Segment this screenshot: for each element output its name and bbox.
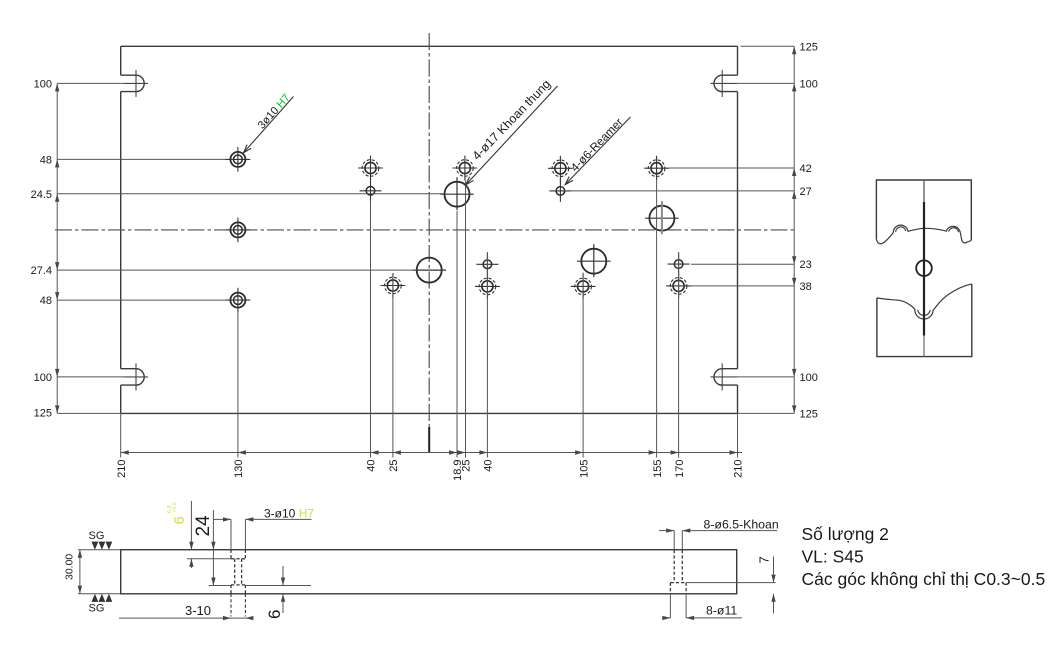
leader 3-o10 H7 (green) xyxy=(244,97,294,153)
hole o6.5/o11 at (678.6,285.9) xyxy=(673,280,684,291)
svg-text:30.00: 30.00 xyxy=(64,554,76,580)
hole o6.5/o11 at (656.6,168.2) xyxy=(651,163,662,174)
svg-text:SG: SG xyxy=(89,603,105,615)
svg-text:100: 100 xyxy=(34,372,52,384)
left dimension line xyxy=(56,83,58,413)
svg-text:100: 100 xyxy=(800,372,818,384)
hole o6.5/o11 at (583.1,286.4) xyxy=(578,281,589,292)
hole o6.5/o11 at (392.9,285.5) xyxy=(387,280,398,291)
dim 7 (right counterbore depth) xyxy=(686,582,776,584)
svg-text:7: 7 xyxy=(757,556,772,563)
extension line x=237.9 xyxy=(237,312,239,458)
section hole o10 (hidden lines), column x=238.2 xyxy=(230,550,232,559)
svg-text:8-ø11: 8-ø11 xyxy=(706,603,737,617)
svg-text:170: 170 xyxy=(674,460,686,478)
svg-text:Các góc không chỉ thị C0.3~0.5: Các góc không chỉ thị C0.3~0.5 xyxy=(802,569,1046,589)
svg-text:210: 210 xyxy=(116,460,128,478)
leader 4-o17 Khoan thung xyxy=(466,86,558,185)
dim 6 (bottom counterbore depth) xyxy=(282,566,284,586)
dim 3-o10 H7 (section) xyxy=(213,518,231,520)
extension at hole bottom (section) xyxy=(209,585,231,587)
svg-text:48: 48 xyxy=(40,154,52,166)
notch bottom-left xyxy=(121,369,145,385)
hole o6.5/o11 at (487.4,286.4) xyxy=(482,281,493,292)
dim 8-o11 xyxy=(662,617,670,619)
notch arcs in top break xyxy=(896,227,906,232)
main horizontal centerline xyxy=(55,229,794,231)
svg-text:40: 40 xyxy=(483,460,495,472)
svg-text:155: 155 xyxy=(652,460,664,478)
notch bottom-right xyxy=(714,369,738,385)
30.00 thickness dimension xyxy=(78,549,121,551)
dim 3-10 (bottom) xyxy=(119,617,250,619)
svg-text:38: 38 xyxy=(800,281,812,293)
svg-text:40: 40 xyxy=(366,460,378,472)
hole o10 at (237.9,300.1) xyxy=(230,293,245,308)
svg-text:105: 105 xyxy=(578,460,590,478)
left row extension lines xyxy=(57,82,124,84)
svg-text:24.5: 24.5 xyxy=(31,189,52,201)
svg-text:210: 210 xyxy=(733,460,745,478)
svg-text:25: 25 xyxy=(388,460,400,472)
svg-text:8-ø6.5-Khoan: 8-ø6.5-Khoan xyxy=(704,517,779,531)
side view bottom part outline xyxy=(877,284,972,357)
hole o6.5/o11 at (560.4,168.3) xyxy=(555,163,566,174)
hole o6.5/o11 at (464.9,168.0) xyxy=(459,162,470,173)
svg-text:100: 100 xyxy=(800,78,818,90)
extension line x=487.4 xyxy=(486,252,488,458)
extension line x=656.6 xyxy=(656,181,658,458)
right dimension line xyxy=(793,46,795,413)
extension line x=583.1 xyxy=(582,273,584,458)
svg-text:130: 130 xyxy=(233,460,245,478)
notch top-right xyxy=(714,75,738,91)
extensions above/below right section hole xyxy=(673,531,675,550)
hole o6 at (370.5,190.8) xyxy=(366,187,375,196)
svg-text:0.8: 0.8 xyxy=(167,505,173,513)
svg-text:6: 6 xyxy=(171,516,188,524)
extension line x=457.0 xyxy=(456,211,458,458)
notch top-left xyxy=(121,75,145,91)
svg-text:24: 24 xyxy=(193,515,214,537)
extension line x=465.5 xyxy=(465,181,467,458)
svg-text:48: 48 xyxy=(40,295,52,307)
side view top break line (wavy) xyxy=(876,225,971,244)
svg-text:6: 6 xyxy=(265,610,284,619)
svg-text:VL: S45: VL: S45 xyxy=(802,547,864,567)
extensions above section hole xyxy=(230,519,232,549)
extension line x=392.9 xyxy=(392,273,394,458)
svg-text:100: 100 xyxy=(34,78,52,90)
SG surface mark bottom xyxy=(92,594,99,602)
side view centerline xyxy=(923,180,925,202)
hole o10 at (237.9,159.4) xyxy=(230,152,245,167)
side view center hole xyxy=(916,260,932,276)
dim 6 +0.5/0 (yellow, counterbore depth) xyxy=(190,501,192,550)
svg-text:27.4: 27.4 xyxy=(31,265,52,277)
extension line x=737.5 xyxy=(737,413,739,457)
svg-text:23: 23 xyxy=(800,259,812,271)
main vertical centerline xyxy=(428,33,430,453)
hole o17 at (429.2,270.1) xyxy=(417,258,442,283)
svg-text:SG: SG xyxy=(89,530,105,542)
plate outline (main top view) xyxy=(121,45,738,47)
hole o17 at (593.8,261.2) xyxy=(581,249,606,274)
dim 8-o6.5-Khoan xyxy=(659,530,674,532)
extension line x=120.7 xyxy=(120,413,122,457)
side view top part outline xyxy=(876,180,971,241)
svg-text:3-ø10 H7: 3-ø10 H7 xyxy=(264,507,314,521)
extension line x=678.6 xyxy=(678,252,680,458)
dim 24 (section depth) xyxy=(212,510,214,586)
extension line x=370.5 xyxy=(370,201,372,458)
svg-text:42: 42 xyxy=(800,163,812,175)
hole o17 at (457.0,194.2) xyxy=(445,182,470,207)
leader 4-o6-Reamer xyxy=(565,117,630,185)
hole o17 at (661.9,218.2) xyxy=(649,206,674,231)
hole o6 at (678.6,264.1) xyxy=(674,260,683,269)
svg-text:27: 27 xyxy=(800,186,812,198)
hole o6 at (487.4,264.3) xyxy=(483,260,492,269)
svg-text:3-10: 3-10 xyxy=(185,603,211,618)
svg-text:Số lượng 2: Số lượng 2 xyxy=(802,524,889,544)
svg-text:125: 125 xyxy=(800,41,818,53)
svg-text:25: 25 xyxy=(461,460,473,472)
side view bottom break line (wavy) xyxy=(877,284,972,319)
section hole o6.5/o11, column x=678.2 xyxy=(673,550,675,583)
svg-text:125: 125 xyxy=(34,408,52,420)
hole o10 at (237.9,229.9) xyxy=(230,222,245,237)
notch arc in bottom break xyxy=(918,310,931,316)
right row extension lines xyxy=(741,45,795,47)
bottom dimension line xyxy=(121,452,742,454)
hole o6 at (560.4,190.9) xyxy=(556,187,565,196)
svg-text:125: 125 xyxy=(800,408,818,420)
section view plate xyxy=(121,550,737,594)
hole o6.5/o11 at (370.5,168.0) xyxy=(365,162,376,173)
